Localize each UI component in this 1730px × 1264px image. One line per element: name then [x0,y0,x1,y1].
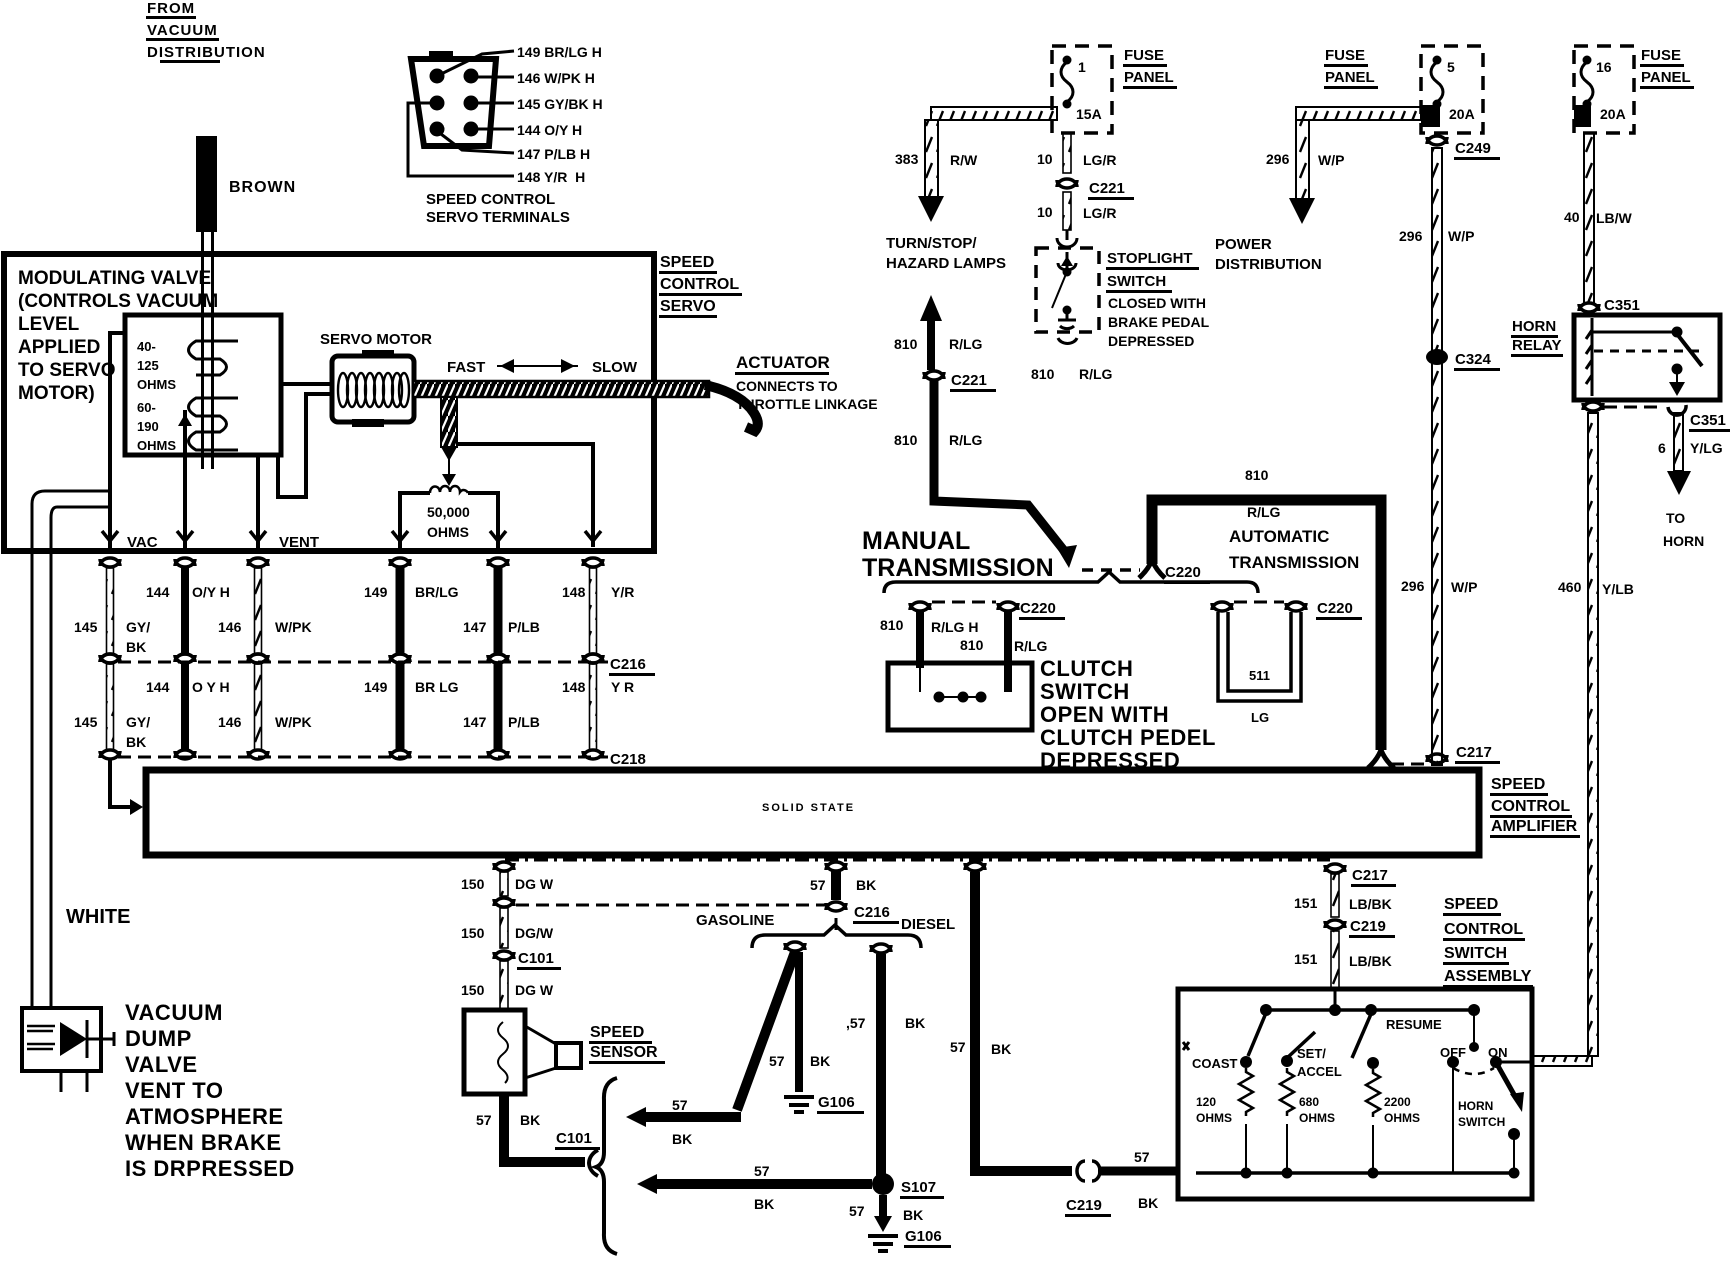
svg-text:15A: 15A [1076,106,1102,122]
svg-text:680: 680 [1299,1095,1319,1109]
svg-text:APPLIED: APPLIED [18,337,100,358]
svg-text:C216: C216 [610,656,646,673]
svg-text:HORN: HORN [1512,318,1556,335]
svg-text:HORN: HORN [1458,1099,1493,1113]
svg-text:OHMS: OHMS [137,377,176,392]
svg-text:SENSOR: SENSOR [590,1044,658,1061]
svg-text:57: 57 [476,1112,492,1128]
svg-text:COAST: COAST [1192,1056,1238,1071]
svg-text:810: 810 [1031,366,1055,382]
svg-text:147: 147 [463,619,487,635]
svg-text:810: 810 [880,617,904,633]
svg-text:OHMS: OHMS [1299,1111,1335,1125]
svg-text:DEPRESSED: DEPRESSED [1108,333,1194,349]
svg-text:BK: BK [1138,1195,1158,1211]
svg-text:P/LB: P/LB [508,619,540,635]
svg-text:383: 383 [895,151,919,167]
svg-text:ACCEL: ACCEL [1297,1064,1342,1079]
svg-text:C216: C216 [854,904,890,921]
svg-text:LB/BK: LB/BK [1349,953,1392,969]
svg-text:SPEED: SPEED [590,1024,644,1041]
svg-text:WHITE: WHITE [66,906,130,928]
svg-text:144: 144 [146,679,170,695]
svg-text:O/Y H: O/Y H [192,584,230,600]
svg-text:146: 146 [218,714,242,730]
svg-text:,57: ,57 [846,1015,866,1031]
svg-text:W/P: W/P [1451,579,1477,595]
svg-text:57: 57 [754,1163,770,1179]
svg-text:BROWN: BROWN [229,179,296,196]
svg-text:BR LG: BR LG [415,679,459,695]
svg-text:57: 57 [849,1203,865,1219]
svg-text:146: 146 [218,619,242,635]
svg-text:IS DRPRESSED: IS DRPRESSED [125,1156,295,1181]
svg-text:151: 151 [1294,895,1318,911]
svg-text:POWER: POWER [1215,236,1272,253]
svg-text:50,000: 50,000 [427,504,470,520]
svg-text:SWITCH: SWITCH [1107,273,1166,290]
svg-text:810: 810 [894,432,918,448]
svg-text:C217: C217 [1352,867,1388,884]
svg-text:148 Y/R H: 148 Y/R H [517,169,585,185]
svg-text:FROM: FROM [147,0,195,17]
svg-text:57: 57 [950,1039,966,1055]
svg-text:HAZARD LAMPS: HAZARD LAMPS [886,255,1006,272]
svg-text:C217: C217 [1456,744,1492,761]
svg-text:148: 148 [562,584,586,600]
svg-text:810: 810 [960,637,984,653]
svg-text:CLOSED WITH: CLOSED WITH [1108,295,1206,311]
svg-text:149: 149 [364,679,388,695]
svg-text:149: 149 [364,584,388,600]
svg-text:R/LG H: R/LG H [931,619,978,635]
svg-text:PANEL: PANEL [1641,69,1691,86]
svg-text:147: 147 [463,714,487,730]
svg-text:148: 148 [562,679,586,695]
svg-text:W/PK: W/PK [275,714,312,730]
svg-text:ACTUATOR: ACTUATOR [736,353,830,372]
svg-text:BK: BK [126,734,146,750]
svg-text:TURN/STOP/: TURN/STOP/ [886,235,977,252]
svg-text:R/LG: R/LG [1247,504,1281,520]
svg-text:CONTROL: CONTROL [660,276,739,293]
svg-text:LB/W: LB/W [1596,210,1633,226]
svg-text:SWITCH: SWITCH [1444,945,1507,962]
svg-text:TRANSMISSION: TRANSMISSION [862,554,1054,582]
svg-text:C219: C219 [1066,1197,1102,1214]
svg-text:16: 16 [1596,59,1612,75]
svg-text:C220: C220 [1165,564,1201,581]
svg-text:SERVO: SERVO [660,298,716,315]
svg-text:VAC: VAC [127,534,158,551]
svg-text:VENT: VENT [279,534,319,551]
svg-text:DIESEL: DIESEL [901,916,955,933]
svg-text:DISTRIBUTION: DISTRIBUTION [147,44,266,61]
svg-text:C249: C249 [1455,140,1491,157]
svg-text:296: 296 [1266,151,1290,167]
svg-text:AUTOMATIC: AUTOMATIC [1229,527,1329,546]
svg-text:GY/: GY/ [126,619,150,635]
svg-text:CLUTCH: CLUTCH [1040,656,1133,681]
svg-text:LB/BK: LB/BK [1349,896,1392,912]
svg-text:OPEN WITH: OPEN WITH [1040,702,1169,727]
svg-text:60-: 60- [137,400,156,415]
svg-text:FUSE: FUSE [1325,47,1365,64]
svg-text:W/PK: W/PK [275,619,312,635]
svg-text:PANEL: PANEL [1124,69,1174,86]
svg-text:C101: C101 [518,950,554,967]
svg-text:5: 5 [1447,59,1455,75]
svg-text:150: 150 [461,876,485,892]
svg-text:W/P: W/P [1318,152,1344,168]
svg-text:R/LG: R/LG [1014,638,1048,654]
svg-text:145: 145 [74,619,98,635]
svg-text:C221: C221 [1089,180,1125,197]
svg-text:G106: G106 [905,1228,942,1245]
svg-text:PANEL: PANEL [1325,69,1375,86]
svg-text:40: 40 [1564,209,1580,225]
svg-text:VALVE: VALVE [125,1052,198,1077]
svg-text:(CONTROLS VACUUM: (CONTROLS VACUUM [18,291,218,312]
svg-text:Y/LB: Y/LB [1602,581,1634,597]
svg-text:125: 125 [137,358,159,373]
svg-text:10: 10 [1037,204,1053,220]
svg-text:57: 57 [1134,1149,1150,1165]
svg-text:G106: G106 [818,1094,855,1111]
svg-text:57: 57 [810,877,826,893]
svg-text:CONNECTS TO: CONNECTS TO [736,378,838,394]
svg-text:C220: C220 [1317,600,1353,617]
svg-text:SLOW: SLOW [592,359,638,376]
svg-text:Y/LG: Y/LG [1690,440,1723,456]
svg-text:RESUME: RESUME [1386,1017,1442,1032]
svg-text:C220: C220 [1020,600,1056,617]
svg-text:VACUUM: VACUUM [147,22,218,39]
svg-text:VENT TO: VENT TO [125,1078,223,1103]
svg-text:BK: BK [905,1015,925,1031]
svg-text:40-: 40- [137,339,156,354]
svg-text:SWITCH: SWITCH [1040,679,1130,704]
svg-text:TO SERVO: TO SERVO [18,360,116,381]
svg-text:LG/R: LG/R [1083,152,1116,168]
svg-text:R/LG: R/LG [1079,366,1113,382]
svg-text:Y/R: Y/R [611,584,634,600]
svg-text:BK: BK [991,1041,1011,1057]
svg-text:SWITCH: SWITCH [1458,1115,1505,1129]
svg-text:BK: BK [672,1131,692,1147]
svg-text:R/W: R/W [950,152,978,168]
svg-text:FAST: FAST [447,359,485,376]
svg-text:C351: C351 [1690,412,1726,429]
svg-text:150: 150 [461,982,485,998]
svg-text:OHMS: OHMS [1196,1111,1232,1125]
svg-text:LG/R: LG/R [1083,205,1116,221]
svg-text:THROTTLE LINKAGE: THROTTLE LINKAGE [736,396,878,412]
svg-text:511: 511 [1249,668,1270,683]
svg-text:20A: 20A [1600,106,1626,122]
svg-text:OHMS: OHMS [1384,1111,1420,1125]
svg-text:ATMOSPHERE: ATMOSPHERE [125,1104,284,1129]
svg-text:AMPLIFIER: AMPLIFIER [1491,818,1578,835]
svg-text:S107: S107 [901,1179,936,1196]
svg-text:CONTROL: CONTROL [1444,921,1523,938]
svg-text:BK: BK [520,1112,540,1128]
svg-text:BRAKE PEDAL: BRAKE PEDAL [1108,314,1210,330]
svg-text:190: 190 [137,419,159,434]
svg-text:WHEN BRAKE: WHEN BRAKE [125,1130,282,1155]
svg-text:DUMP: DUMP [125,1026,192,1051]
svg-text:C101: C101 [556,1130,592,1147]
svg-text:151: 151 [1294,951,1318,967]
svg-text:W/P: W/P [1448,228,1474,244]
svg-text:LEVEL: LEVEL [18,314,80,335]
svg-text:1: 1 [1078,59,1086,75]
svg-text:FUSE: FUSE [1124,47,1164,64]
svg-text:144 O/Y H: 144 O/Y H [517,122,582,138]
svg-text:120: 120 [1196,1095,1216,1109]
svg-text:VACUUM: VACUUM [125,1000,223,1025]
svg-text:810: 810 [894,336,918,352]
svg-text:296: 296 [1399,228,1423,244]
svg-text:SERVO TERMINALS: SERVO TERMINALS [426,209,570,226]
svg-text:DISTRIBUTION: DISTRIBUTION [1215,256,1322,273]
svg-text:Y R: Y R [611,679,634,695]
svg-text:RELAY: RELAY [1512,337,1561,354]
svg-text:BR/LG: BR/LG [415,584,459,600]
svg-text:CONTROL: CONTROL [1491,798,1570,815]
svg-text:MANUAL: MANUAL [862,527,970,555]
svg-text:LG: LG [1251,710,1269,725]
svg-text:145 GY/BK H: 145 GY/BK H [517,96,603,112]
svg-text:296: 296 [1401,578,1425,594]
svg-text:DG W: DG W [515,982,554,998]
svg-text:C221: C221 [951,372,987,389]
svg-text:DG/W: DG/W [515,925,554,941]
svg-text:GY/: GY/ [126,714,150,730]
svg-text:6: 6 [1658,440,1666,456]
svg-text:10: 10 [1037,151,1053,167]
svg-text:C351: C351 [1604,297,1640,314]
svg-text:SPEED CONTROL: SPEED CONTROL [426,191,555,208]
svg-text:SET/: SET/ [1297,1046,1326,1061]
svg-text:ASSEMBLY: ASSEMBLY [1444,968,1532,985]
svg-text:460: 460 [1558,579,1582,595]
svg-text:R/LG: R/LG [949,336,983,352]
svg-text:149 BR/LG H: 149 BR/LG H [517,44,602,60]
svg-text:FUSE: FUSE [1641,47,1681,64]
svg-text:BK: BK [126,639,146,655]
svg-text:R/LG: R/LG [949,432,983,448]
svg-text:145: 145 [74,714,98,730]
svg-text:SOLID STATE: SOLID STATE [762,802,855,814]
svg-text:147 P/LB H: 147 P/LB H [517,146,590,162]
svg-text:150: 150 [461,925,485,941]
svg-text:O Y H: O Y H [192,679,230,695]
svg-text:SPEED: SPEED [660,254,714,271]
svg-text:SPEED: SPEED [1444,896,1498,913]
svg-text:57: 57 [672,1097,688,1113]
svg-text:BK: BK [903,1207,923,1223]
svg-text:GASOLINE: GASOLINE [696,912,774,929]
svg-text:BK: BK [856,877,876,893]
svg-text:TO: TO [1666,510,1685,526]
svg-text:DG W: DG W [515,876,554,892]
svg-text:146 W/PK H: 146 W/PK H [517,70,595,86]
svg-text:OHMS: OHMS [427,524,469,540]
svg-text:57: 57 [769,1053,785,1069]
svg-text:C219: C219 [1350,918,1386,935]
svg-text:SERVO MOTOR: SERVO MOTOR [320,331,432,348]
svg-text:C218: C218 [610,751,646,768]
svg-text:C324: C324 [1455,351,1492,368]
svg-text:BK: BK [754,1196,774,1212]
svg-text:HORN: HORN [1663,533,1704,549]
svg-text:144: 144 [146,584,170,600]
svg-text:MODULATING VALVE: MODULATING VALVE [18,268,211,289]
svg-text:BK: BK [810,1053,830,1069]
svg-text:MOTOR): MOTOR) [18,383,95,404]
svg-text:20A: 20A [1449,106,1475,122]
svg-text:P/LB: P/LB [508,714,540,730]
svg-text:OHMS: OHMS [137,438,176,453]
svg-text:810: 810 [1245,467,1269,483]
svg-text:STOPLIGHT: STOPLIGHT [1107,250,1193,267]
svg-text:TRANSMISSION: TRANSMISSION [1229,553,1359,572]
svg-text:SPEED: SPEED [1491,776,1545,793]
svg-text:DEPRESSED: DEPRESSED [1040,748,1180,773]
svg-text:CLUTCH PEDEL: CLUTCH PEDEL [1040,725,1216,750]
svg-text:2200: 2200 [1384,1095,1411,1109]
